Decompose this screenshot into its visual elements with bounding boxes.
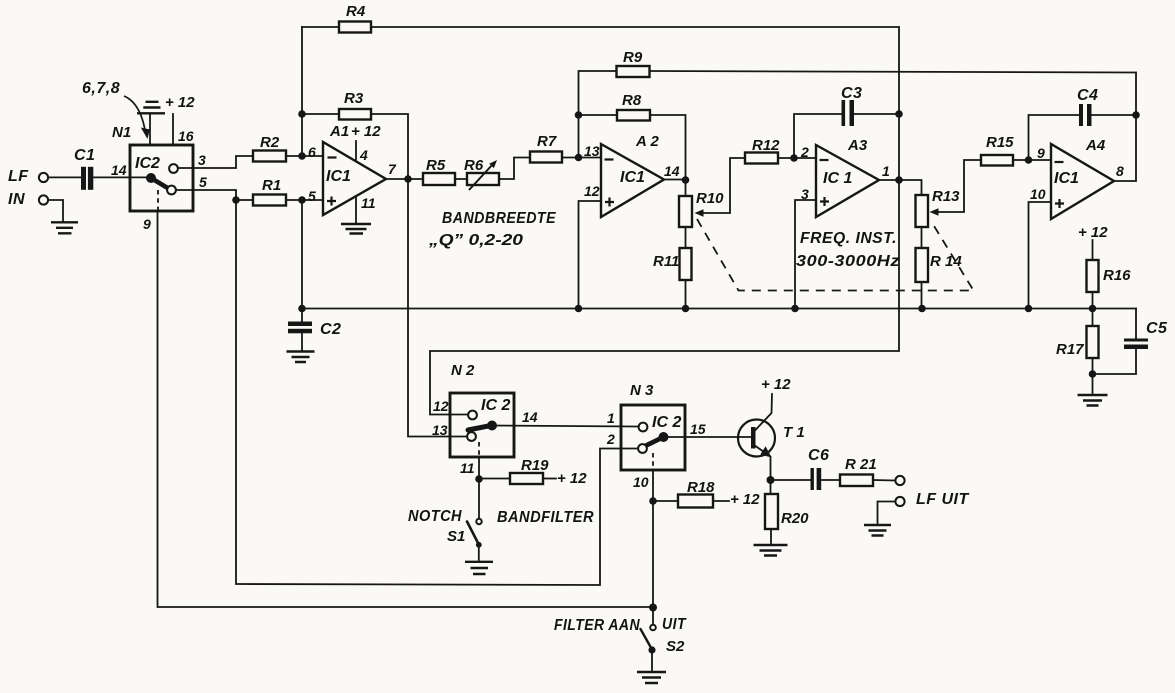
svg-text:9: 9 bbox=[143, 216, 151, 232]
svg-text:15: 15 bbox=[690, 421, 706, 437]
svg-text:R8: R8 bbox=[622, 92, 642, 109]
svg-text:R11: R11 bbox=[653, 253, 679, 270]
svg-text:A 2: A 2 bbox=[635, 133, 659, 150]
svg-text:T 1: T 1 bbox=[783, 424, 805, 441]
svg-text:FREQ. INST.: FREQ. INST. bbox=[800, 230, 897, 247]
svg-text:11: 11 bbox=[460, 460, 475, 476]
svg-text:+ 12: + 12 bbox=[1078, 224, 1108, 241]
svg-text:3: 3 bbox=[801, 186, 809, 202]
svg-text:„Q” 0,2-20: „Q” 0,2-20 bbox=[428, 232, 523, 249]
svg-text:7: 7 bbox=[388, 161, 397, 177]
svg-text:R18: R18 bbox=[687, 479, 715, 496]
svg-text:A1: A1 bbox=[329, 123, 349, 140]
svg-text:R10: R10 bbox=[696, 190, 724, 207]
svg-text:+ 12: + 12 bbox=[761, 376, 791, 393]
svg-text:2: 2 bbox=[606, 431, 615, 447]
svg-text:R4: R4 bbox=[346, 3, 366, 20]
svg-text:R16: R16 bbox=[1103, 267, 1131, 284]
svg-text:+ 12: + 12 bbox=[165, 94, 195, 111]
svg-text:IC1: IC1 bbox=[326, 168, 351, 185]
svg-text:13: 13 bbox=[432, 422, 448, 438]
svg-text:BANDFILTER: BANDFILTER bbox=[497, 509, 594, 526]
svg-text:C1: C1 bbox=[74, 147, 95, 164]
svg-text:1: 1 bbox=[882, 163, 890, 179]
svg-text:10: 10 bbox=[1030, 186, 1046, 202]
svg-text:N 3: N 3 bbox=[630, 382, 654, 399]
svg-text:+ 12: + 12 bbox=[351, 123, 381, 140]
svg-text:R2: R2 bbox=[260, 134, 280, 151]
svg-text:LF UIT: LF UIT bbox=[916, 491, 969, 508]
svg-text:14: 14 bbox=[111, 162, 127, 178]
svg-text:3: 3 bbox=[198, 152, 206, 168]
svg-text:IC 2: IC 2 bbox=[481, 397, 510, 414]
svg-text:R15: R15 bbox=[986, 134, 1014, 151]
svg-text:IN: IN bbox=[8, 191, 25, 208]
svg-text:N1: N1 bbox=[112, 124, 131, 141]
svg-text:13: 13 bbox=[584, 143, 600, 159]
svg-text:UIT: UIT bbox=[662, 616, 687, 633]
svg-text:+ 12: + 12 bbox=[557, 470, 587, 487]
svg-text:9: 9 bbox=[1037, 145, 1045, 161]
svg-text:R3: R3 bbox=[344, 90, 364, 107]
svg-text:C5: C5 bbox=[1146, 320, 1168, 337]
svg-text:A4: A4 bbox=[1085, 137, 1106, 154]
svg-text:300-3000Hz: 300-3000Hz bbox=[796, 253, 900, 270]
svg-text:R1: R1 bbox=[262, 177, 281, 194]
svg-text:14: 14 bbox=[664, 163, 680, 179]
svg-text:S2: S2 bbox=[666, 638, 685, 655]
svg-text:6,7,8: 6,7,8 bbox=[82, 80, 120, 97]
svg-text:R 21: R 21 bbox=[845, 456, 877, 473]
svg-text:R7: R7 bbox=[537, 133, 557, 150]
svg-text:2: 2 bbox=[800, 144, 809, 160]
svg-text:R19: R19 bbox=[521, 457, 549, 474]
svg-text:A3: A3 bbox=[847, 137, 868, 154]
svg-text:R17: R17 bbox=[1056, 341, 1084, 358]
svg-text:5: 5 bbox=[199, 174, 207, 190]
svg-text:12: 12 bbox=[584, 183, 600, 199]
svg-text:R13: R13 bbox=[932, 188, 960, 205]
svg-text:C6: C6 bbox=[808, 447, 829, 464]
svg-text:4: 4 bbox=[359, 147, 368, 163]
svg-text:10: 10 bbox=[633, 474, 649, 490]
svg-text:C2: C2 bbox=[320, 321, 341, 338]
svg-text:NOTCH: NOTCH bbox=[408, 508, 462, 525]
svg-text:8: 8 bbox=[1116, 163, 1124, 179]
svg-text:N 2: N 2 bbox=[451, 362, 475, 379]
svg-text:+ 12: + 12 bbox=[730, 491, 760, 508]
svg-text:R20: R20 bbox=[781, 510, 809, 527]
svg-text:FILTER AAN: FILTER AAN bbox=[554, 617, 640, 634]
svg-text:BANDBREEDTE: BANDBREEDTE bbox=[442, 210, 557, 227]
svg-text:1: 1 bbox=[607, 410, 615, 426]
svg-text:R9: R9 bbox=[623, 49, 643, 66]
svg-text:C3: C3 bbox=[841, 85, 862, 102]
svg-text:IC1: IC1 bbox=[1054, 170, 1079, 187]
svg-text:IC 1: IC 1 bbox=[823, 170, 852, 187]
svg-text:5: 5 bbox=[308, 188, 316, 204]
svg-text:C4: C4 bbox=[1077, 87, 1098, 104]
svg-text:IC 2: IC 2 bbox=[652, 414, 681, 431]
svg-text:16: 16 bbox=[178, 128, 194, 144]
svg-text:IC1: IC1 bbox=[620, 169, 645, 186]
svg-text:14: 14 bbox=[522, 409, 538, 425]
svg-text:11: 11 bbox=[361, 195, 376, 211]
svg-text:R6: R6 bbox=[464, 157, 484, 174]
svg-text:S1: S1 bbox=[447, 528, 465, 545]
svg-text:6: 6 bbox=[308, 144, 316, 160]
svg-text:12: 12 bbox=[433, 398, 449, 414]
svg-text:R12: R12 bbox=[752, 137, 780, 154]
svg-text:LF: LF bbox=[8, 168, 29, 185]
svg-text:R5: R5 bbox=[426, 157, 446, 174]
svg-text:IC2: IC2 bbox=[135, 155, 160, 172]
svg-text:R 14: R 14 bbox=[930, 253, 962, 270]
